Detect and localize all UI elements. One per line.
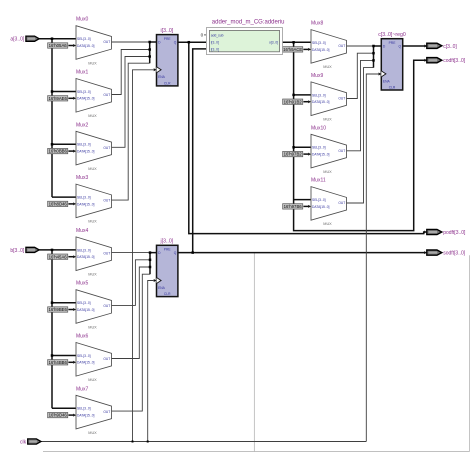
register j <box>157 239 178 297</box>
svg-text:OUT: OUT <box>103 199 110 203</box>
svg-text:DATA[15..0]: DATA[15..0] <box>77 361 95 365</box>
constant 16'h... to Mux1 DATA <box>48 96 76 101</box>
wire Mux11 OUT riser <box>347 68 374 203</box>
svg-text:PRE: PRE <box>389 41 397 45</box>
wire adder output o to Mux8 SEL <box>283 41 312 43</box>
mux Mux10 <box>311 125 347 174</box>
svg-text:16'h97B6: 16'h97B6 <box>284 204 303 209</box>
svg-text:16'h9ACE: 16'h9ACE <box>283 47 302 52</box>
wire b bus vertical trunk <box>51 250 53 408</box>
svg-text:ENA: ENA <box>158 286 166 290</box>
svg-text:adder_mod_m_CG:adderiu: adder_mod_m_CG:adderiu <box>212 20 285 26</box>
svg-text:DATA[15..0]: DATA[15..0] <box>312 205 330 209</box>
wire register j D bus collector <box>150 253 157 275</box>
svg-text:OUT: OUT <box>103 40 110 44</box>
svg-text:OUT: OUT <box>103 93 110 97</box>
constant 16'h... to Mux4 DATA <box>48 254 76 259</box>
svg-text:Mux2: Mux2 <box>76 122 88 128</box>
partition boundary right edge <box>469 255 471 451</box>
svg-text:OUT: OUT <box>103 304 110 308</box>
svg-text:0: 0 <box>201 33 204 38</box>
constant 16'h... to Mux7 DATA <box>48 412 76 417</box>
wire Mux5 OUT riser <box>112 260 151 306</box>
output port c <box>427 43 458 50</box>
wire adder output SEL bus trunk, continues down to codft run <box>294 42 425 230</box>
junction clk riser i <box>132 441 134 443</box>
svg-text:SEL[3..0]: SEL[3..0] <box>77 37 91 41</box>
svg-text:SEL[3..0]: SEL[3..0] <box>77 301 91 305</box>
mux Mux11 <box>311 178 347 227</box>
svg-text:b[3..0]: b[3..0] <box>10 248 25 254</box>
svg-text:ENA: ENA <box>158 75 166 79</box>
svg-text:Mux5: Mux5 <box>76 281 88 287</box>
wire clk main run <box>41 441 366 443</box>
junction D bus tap Mux2 <box>148 55 151 58</box>
svg-text:SEL[3..0]: SEL[3..0] <box>77 143 91 147</box>
svg-text:MUX: MUX <box>323 222 332 226</box>
wire register j Q to sodft output run <box>178 252 425 254</box>
arrowhead clk register j <box>154 279 157 282</box>
junction on register i Q wire <box>188 41 191 44</box>
mux Mux4 <box>76 228 112 277</box>
mux Mux9 <box>311 73 347 122</box>
junction D bus tap Mux4 <box>149 251 152 254</box>
junction b bus at Mux4 row <box>51 249 54 252</box>
svg-text:MUX: MUX <box>88 220 97 224</box>
wire a bus branch to Mux1 SEL <box>52 91 76 93</box>
junction D bus tap Mux6 <box>149 266 152 269</box>
svg-text:16'h05A6: 16'h05A6 <box>49 43 68 48</box>
svg-text:SEL[3..0]: SEL[3..0] <box>312 198 326 202</box>
svg-text:DATA[15..0]: DATA[15..0] <box>77 414 95 418</box>
constant 16'h... to Mux0 DATA <box>48 43 76 48</box>
input port b <box>10 247 39 254</box>
junction SEL bus at Mux10 row <box>292 146 295 149</box>
svg-text:Mux11: Mux11 <box>311 178 326 184</box>
partition boundary left edge <box>253 253 255 452</box>
svg-text:Mux7: Mux7 <box>76 386 88 392</box>
svg-text:SEL[3..0]: SEL[3..0] <box>77 248 91 252</box>
junction a bus at Mux2 row <box>51 143 54 146</box>
svg-text:MUX: MUX <box>88 114 97 118</box>
junction a bus at Mux1 row <box>51 90 54 93</box>
constant 0 on add_sub <box>201 33 210 38</box>
svg-text:16'h97B2: 16'h97B2 <box>284 152 303 157</box>
svg-text:c[3..0]: c[3..0] <box>443 44 457 50</box>
svg-text:sodft[3..0]: sodft[3..0] <box>443 251 466 257</box>
svg-text:16'h9D46: 16'h9D46 <box>49 413 68 418</box>
svg-text:16'h9AE6: 16'h9AE6 <box>48 96 67 101</box>
wire a[3..0] bus from port to Mux0 SEL <box>39 38 76 40</box>
svg-text:CLR: CLR <box>389 85 396 89</box>
junction on register j Q wire <box>191 251 194 254</box>
mux Mux5 <box>76 281 112 330</box>
svg-text:MUX: MUX <box>323 118 332 122</box>
svg-text:SEL[3..0]: SEL[3..0] <box>312 146 326 150</box>
arrowhead clk register i <box>154 68 157 71</box>
constant 16'h... to Mux3 DATA <box>48 201 76 206</box>
svg-text:MUX: MUX <box>88 273 97 277</box>
arrowhead into podft port <box>424 231 427 234</box>
constant 16'h... to Mux10 DATA <box>283 151 311 156</box>
svg-text:OUT: OUT <box>103 357 110 361</box>
wire b bus branch to Mux7 SEL <box>52 407 76 409</box>
wire Mux0 OUT to register i data bus <box>112 41 150 43</box>
svg-text:MUX: MUX <box>88 167 97 171</box>
svg-text:Mux0: Mux0 <box>76 17 88 23</box>
svg-text:c[3..0]~reg0: c[3..0]~reg0 <box>378 32 406 38</box>
constant 16'h... to Mux11 DATA <box>283 204 311 209</box>
mux Mux7 <box>76 386 112 435</box>
svg-text:SEL[3..0]: SEL[3..0] <box>77 196 91 200</box>
svg-text:OUT: OUT <box>103 146 110 150</box>
svg-text:DATA[15..0]: DATA[15..0] <box>312 48 330 52</box>
constant 16'h... to Mux2 DATA <box>48 148 76 153</box>
wire Mux7 OUT riser <box>112 274 151 411</box>
svg-text:DATA[15..0]: DATA[15..0] <box>77 308 95 312</box>
svg-text:OUT: OUT <box>338 96 345 100</box>
svg-text:codft[3..0]: codft[3..0] <box>443 58 466 64</box>
svg-text:DATA[15..0]: DATA[15..0] <box>77 255 95 259</box>
svg-text:SEL[3..0]: SEL[3..0] <box>77 354 91 358</box>
junction D bus tap Mux0 <box>148 41 151 44</box>
svg-text:OUT: OUT <box>103 251 110 255</box>
junction D bus tap Mux1 <box>148 48 151 51</box>
svg-text:Q: Q <box>399 45 402 49</box>
wire SEL branch to Mux11 <box>294 199 311 201</box>
wire node j up to adder input i2 <box>193 49 210 253</box>
svg-text:16'h4BB6: 16'h4BB6 <box>48 360 67 365</box>
svg-text:PRE: PRE <box>164 37 172 41</box>
wire Mux8 OUT to register c data bus <box>347 45 374 47</box>
input port a <box>10 36 39 43</box>
mux Mux3 <box>76 175 112 224</box>
wire clk riser to register j <box>148 281 154 442</box>
svg-text:CLR: CLR <box>164 81 171 85</box>
svg-text:Mux4: Mux4 <box>76 228 88 234</box>
svg-text:i[3..0]: i[3..0] <box>211 47 219 51</box>
junction b bus at Mux6 row <box>51 354 54 357</box>
svg-text:Q: Q <box>174 41 177 45</box>
constant 16'h... to Mux9 DATA <box>283 99 311 104</box>
svg-text:MUX: MUX <box>88 378 97 382</box>
mux Mux0 <box>76 17 112 66</box>
svg-text:MUX: MUX <box>88 431 97 435</box>
wire a bus branch to Mux2 SEL <box>52 143 76 145</box>
wire register i Q to adder input i1 <box>178 41 210 43</box>
wire clk riser to register i <box>133 70 154 442</box>
wire Mux6 OUT riser <box>112 267 151 359</box>
wire SEL branch to Mux10 <box>294 146 311 148</box>
mux Mux6 <box>76 334 112 383</box>
wire register c Q to output port c <box>402 45 425 47</box>
svg-text:a[3..0]: a[3..0] <box>10 37 25 43</box>
svg-text:Mux9: Mux9 <box>311 73 323 79</box>
svg-text:j[3..0]: j[3..0] <box>160 239 174 245</box>
wire Mux3 OUT riser <box>112 63 150 200</box>
arrowhead into adder i1 <box>207 41 210 44</box>
svg-text:16'h9BE6: 16'h9BE6 <box>48 307 67 312</box>
svg-text:clk: clk <box>20 440 27 446</box>
junction a bus at Mux0 row <box>51 37 54 40</box>
arrowhead into adder i2 <box>207 47 210 50</box>
svg-text:i[3..0]: i[3..0] <box>211 41 219 45</box>
svg-text:Mux8: Mux8 <box>311 21 323 27</box>
junction D bus tap Mux10 <box>372 59 375 62</box>
output port podft <box>427 229 466 236</box>
svg-text:SEL[3..0]: SEL[3..0] <box>312 41 326 45</box>
wire Mux2 OUT riser <box>112 57 150 148</box>
mux Mux1 <box>76 70 112 119</box>
svg-text:MUX: MUX <box>323 65 332 69</box>
svg-text:OUT: OUT <box>338 44 345 48</box>
junction D bus tap Mux8 <box>372 45 375 48</box>
svg-text:ENA: ENA <box>383 79 391 83</box>
arrowhead into c port <box>424 45 427 48</box>
svg-text:Mux6: Mux6 <box>76 334 88 340</box>
svg-text:Mux3: Mux3 <box>76 175 88 181</box>
wire Mux1 OUT riser <box>112 50 150 95</box>
wire register i D bus collector <box>150 42 157 63</box>
arrowhead into codft port <box>424 59 427 62</box>
junction b bus at Mux5 row <box>51 301 54 304</box>
mux Mux8 <box>311 21 347 70</box>
junction SEL bus at Mux8 row <box>292 41 295 44</box>
input port clk <box>20 439 41 446</box>
register c[3..0]~reg0 <box>378 32 406 90</box>
mux Mux2 <box>76 122 112 171</box>
svg-text:SEL[3..0]: SEL[3..0] <box>77 407 91 411</box>
constant 16'h... to Mux8 DATA <box>283 47 311 52</box>
adder U adder_mod_m_CG:adderiu <box>206 20 284 55</box>
junction D bus tap Mux9 <box>372 52 375 55</box>
register i <box>157 28 178 86</box>
svg-text:DATA[15..0]: DATA[15..0] <box>77 202 95 206</box>
svg-text:PRE: PRE <box>164 248 172 252</box>
svg-text:Mux10: Mux10 <box>311 125 326 131</box>
svg-text:MUX: MUX <box>323 170 332 174</box>
output port codft <box>427 58 466 65</box>
svg-text:16'h91B2: 16'h91B2 <box>284 99 303 104</box>
junction SEL bus at Mux9 row <box>292 94 295 97</box>
svg-text:OUT: OUT <box>103 410 110 414</box>
svg-text:16'h0BB6: 16'h0BB6 <box>48 149 67 154</box>
svg-text:Mux1: Mux1 <box>76 70 88 76</box>
junction D bus tap Mux5 <box>149 259 152 262</box>
svg-text:DATA[15..0]: DATA[15..0] <box>312 153 330 157</box>
svg-text:add_sub: add_sub <box>211 33 224 37</box>
svg-text:CLR: CLR <box>164 292 171 296</box>
wire a bus vertical trunk <box>51 39 53 197</box>
wire b bus branch to Mux5 SEL <box>52 302 76 304</box>
wire clk riser to register c <box>366 74 378 442</box>
wire Mux9 OUT riser <box>347 53 374 98</box>
svg-text:DATA[15..0]: DATA[15..0] <box>77 44 95 48</box>
wire register c D bus collector <box>374 46 382 68</box>
junction clk riser j <box>147 441 149 443</box>
output port sodft <box>427 250 466 257</box>
arrowhead into sodft port <box>424 251 427 254</box>
svg-text:OUT: OUT <box>338 201 345 205</box>
svg-text:SEL[3..0]: SEL[3..0] <box>77 90 91 94</box>
wire b bus branch to Mux6 SEL <box>52 355 76 357</box>
svg-text:16'h45A6: 16'h45A6 <box>49 254 68 259</box>
partition boundary bottom edge <box>43 451 470 453</box>
svg-text:Q: Q <box>174 251 177 255</box>
svg-text:DATA[15..0]: DATA[15..0] <box>77 97 95 101</box>
constant 16'h... to Mux6 DATA <box>48 360 76 365</box>
svg-text:SEL[3..0]: SEL[3..0] <box>312 93 326 97</box>
wire Mux10 OUT riser <box>347 60 374 150</box>
svg-text:MUX: MUX <box>88 325 97 329</box>
svg-text:DATA[15..0]: DATA[15..0] <box>77 150 95 154</box>
svg-text:podft[3..0]: podft[3..0] <box>443 230 466 236</box>
svg-text:16'h8D46: 16'h8D46 <box>49 202 68 207</box>
svg-text:MUX: MUX <box>88 61 97 65</box>
wire SEL branch to Mux9 <box>294 94 311 96</box>
wire node i down to podft output run <box>189 42 425 233</box>
svg-text:OUT: OUT <box>338 149 345 153</box>
arrowhead clk register c <box>379 73 382 76</box>
wire a bus branch to Mux3 SEL <box>52 196 76 198</box>
svg-text:i[3..0]: i[3..0] <box>161 28 174 34</box>
constant 16'h... to Mux5 DATA <box>48 307 76 312</box>
svg-text:o[3..0]: o[3..0] <box>269 41 278 45</box>
wire Mux4 OUT to register j data bus <box>112 252 151 254</box>
svg-text:DATA[15..0]: DATA[15..0] <box>312 100 330 104</box>
wire b[3..0] bus from port to Mux4 SEL <box>39 249 76 251</box>
